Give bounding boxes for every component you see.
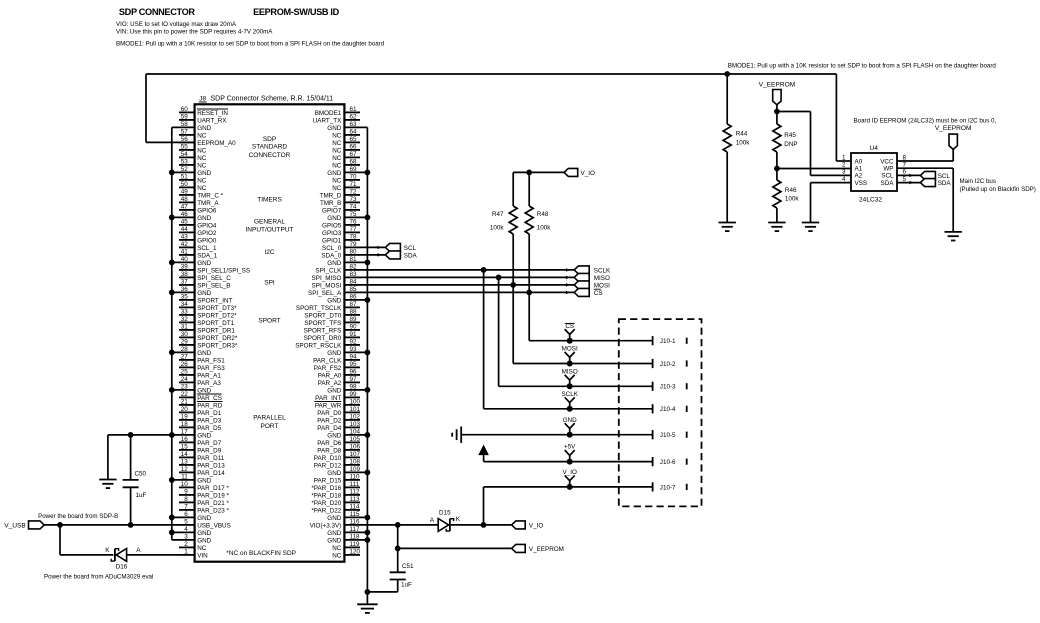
pin 34 SPORT_DT3* (J8 left) (179, 301, 237, 312)
pin 19 PAR_D3 (J8 left) (179, 413, 222, 424)
svg-text:GND: GND (197, 350, 211, 357)
svg-text:24LC32: 24LC32 (859, 196, 882, 203)
svg-text:88: 88 (350, 308, 358, 315)
svg-text:PAR_FS1: PAR_FS1 (197, 358, 225, 365)
svg-text:SPORT_DT1: SPORT_DT1 (197, 320, 234, 327)
svg-text:GND: GND (327, 298, 341, 305)
pin 23 GND (J8 left) (172, 383, 212, 394)
ground at right GND bus (357, 604, 377, 613)
svg-text:86: 86 (350, 293, 358, 300)
wire SDA_0 to flag (360, 253, 385, 257)
pin 119 NC (J8 right) (332, 541, 360, 552)
wire U4 VCC to V_EEPROM (897, 149, 953, 161)
svg-text:PAR_D21 *: PAR_D21 * (197, 500, 229, 507)
svg-text:52: 52 (181, 166, 189, 173)
svg-text:GND: GND (327, 170, 341, 177)
pin 75 GND (J8 right) (327, 211, 367, 222)
svg-text:PAR_D6: PAR_D6 (317, 440, 342, 447)
svg-text:*NC on BLACKFIN SDP: *NC on BLACKFIN SDP (226, 550, 296, 557)
junction left GND bus pin 40 (169, 260, 175, 266)
svg-text:117: 117 (350, 526, 361, 533)
svg-text:PAR_FS2: PAR_FS2 (314, 365, 342, 372)
svg-text:40: 40 (181, 256, 189, 263)
junction left GND bus pin 23 (169, 387, 175, 393)
svg-text:PAR_INT: PAR_INT (315, 395, 341, 402)
svg-text:100k: 100k (537, 224, 552, 231)
svg-text:11: 11 (181, 473, 188, 480)
pin 37 SPI_SEL_B (J8 left) (179, 278, 230, 289)
pin 45 GPIO4 (J8 left) (179, 218, 217, 229)
svg-text:J10-7: J10-7 (660, 484, 676, 491)
svg-text:EEPROM_A0: EEPROM_A0 (197, 140, 236, 147)
pin 85 SPI_SEL_A (J8 right) (308, 286, 360, 297)
pin 101 PAR_D0 (J8 right) (317, 406, 360, 417)
svg-text:TMR_A: TMR_A (197, 200, 219, 207)
svg-text:65: 65 (350, 136, 358, 143)
svg-text:4: 4 (184, 526, 188, 533)
wire top rail down to U4 A0 (836, 74, 851, 161)
svg-text:PAR_A1: PAR_A1 (197, 373, 221, 380)
connector J8 body (195, 104, 345, 561)
pin 107 PAR_D10 (J8 right) (314, 451, 361, 462)
svg-text:A0: A0 (855, 158, 863, 165)
svg-text:NC: NC (197, 155, 207, 162)
capacitor C51 1uF (390, 548, 414, 592)
title SDP CONNECTOR (119, 7, 195, 17)
svg-text:STANDARD: STANDARD (252, 144, 288, 151)
svg-text:99: 99 (350, 391, 358, 398)
svg-text:PAR_D2: PAR_D2 (317, 418, 342, 425)
svg-text:VIO: USE to set IO voltage max: VIO: USE to set IO voltage max draw 20mA (116, 21, 237, 28)
svg-text:105: 105 (350, 436, 361, 443)
svg-text:UART_RX: UART_RX (197, 118, 227, 125)
svg-text:92: 92 (350, 338, 358, 345)
pin 59 UART_RX (J8 left) (179, 113, 227, 124)
svg-text:26: 26 (181, 361, 189, 368)
pin 42 SCL_1 (J8 left) (179, 241, 217, 252)
svg-text:BMODE1: Pull up with a 10K res: BMODE1: Pull up with a 10K resistor to s… (116, 41, 385, 48)
pin 80 SDA_0 (J8 right) (321, 248, 360, 259)
svg-text:48: 48 (181, 196, 189, 203)
pin 111 *PAR_D16 (J8 right) (311, 481, 360, 492)
svg-text:75: 75 (350, 211, 358, 218)
pin 24 PAR_A3 (J8 left) (179, 376, 221, 387)
pin 98 GND (J8 right) (327, 383, 367, 394)
svg-text:106: 106 (350, 443, 361, 450)
note VIN usage (116, 29, 273, 36)
svg-text:NC: NC (332, 148, 342, 155)
svg-text:32: 32 (181, 316, 189, 323)
svg-text:R48: R48 (537, 211, 549, 218)
pin 9 PAR_D19 * (J8 left) (179, 488, 229, 499)
net flag V_USB (4, 521, 44, 530)
svg-text:81: 81 (350, 256, 358, 263)
svg-text:111: 111 (350, 481, 360, 488)
svg-text:34: 34 (181, 301, 189, 308)
svg-text:NC: NC (332, 155, 342, 162)
svg-text:116: 116 (350, 518, 361, 525)
svg-text:GND: GND (327, 350, 341, 357)
svg-text:NC: NC (197, 545, 207, 552)
pin 106 PAR_D8 (J8 right) (317, 443, 360, 454)
svg-text:PAR_D14: PAR_D14 (197, 470, 225, 477)
pin 38 SPI_SEL_C (J8 left) (179, 271, 231, 282)
svg-text:PAR_D10: PAR_D10 (314, 455, 342, 462)
pin 26 PAR_FS3 (J8 left) (179, 361, 225, 372)
svg-text:V_IO: V_IO (581, 170, 595, 177)
svg-text:GPIO1: GPIO1 (322, 238, 342, 245)
resistor R47 100k (490, 172, 517, 285)
svg-text:19: 19 (181, 413, 189, 420)
svg-text:NC: NC (332, 545, 342, 552)
wire D15 to V_IO flag (451, 524, 512, 526)
svg-text:R46: R46 (785, 187, 797, 194)
svg-text:SPI_SEL_C: SPI_SEL_C (197, 275, 231, 282)
svg-text:53: 53 (181, 158, 189, 165)
svg-text:39: 39 (181, 263, 189, 270)
svg-text:V_EEPROM: V_EEPROM (935, 125, 972, 132)
svg-text:SPORT_DT0: SPORT_DT0 (304, 313, 341, 320)
svg-text:SPORT_RFS: SPORT_RFS (304, 328, 342, 335)
svg-text:V_USB: V_USB (4, 523, 26, 530)
pin 2 U4 A1 (842, 162, 846, 169)
svg-text:V_EEPROM: V_EEPROM (759, 82, 796, 89)
svg-text:100k: 100k (736, 139, 751, 146)
svg-text:69: 69 (350, 166, 358, 173)
svg-text:PAR_D23 *: PAR_D23 * (197, 508, 229, 515)
svg-text:112: 112 (350, 488, 361, 495)
svg-text:SPI_SEL_A: SPI_SEL_A (308, 290, 342, 297)
svg-text:SPORT_DR3*: SPORT_DR3* (197, 343, 238, 350)
pin J10-4 (653, 404, 687, 413)
pin 78 GPIO1 (J8 right) (322, 233, 360, 244)
svg-text:PAR_FS3: PAR_FS3 (197, 365, 225, 372)
junction C50 top (128, 432, 134, 438)
svg-text:SPORT_INT: SPORT_INT (197, 298, 232, 305)
svg-text:100k: 100k (785, 196, 800, 203)
svg-text:62: 62 (350, 113, 358, 120)
pin 20 PAR_D1 (J8 left) (179, 406, 222, 417)
svg-text:37: 37 (181, 278, 189, 285)
svg-text:SPORT_DR1: SPORT_DR1 (197, 328, 235, 335)
svg-text:SCLK: SCLK (594, 267, 611, 274)
svg-text:3: 3 (184, 533, 188, 540)
svg-text:*PAR_D22: *PAR_D22 (311, 508, 341, 515)
wire V_IO to J10-7 (484, 487, 653, 525)
svg-text:SCL: SCL (404, 245, 417, 252)
resistor R45 DNP (773, 112, 798, 169)
svg-text:47: 47 (181, 203, 189, 210)
svg-text:PAR_D3: PAR_D3 (197, 418, 222, 425)
pin J10-1 (653, 336, 687, 345)
junction SCLK branch (481, 267, 487, 273)
pin 90 SPORT_RFS (J8 right) (304, 323, 360, 334)
pin 112 *PAR_D18 (J8 right) (311, 488, 360, 499)
junction right GND bus pin 69 (365, 170, 371, 176)
pin 118 GND (J8 right) (327, 533, 367, 544)
svg-text:I2C: I2C (264, 249, 274, 256)
svg-text:NC: NC (197, 178, 207, 185)
wire GND bus to ground (366, 592, 368, 604)
svg-text:GND: GND (197, 530, 211, 537)
svg-text:MISO: MISO (594, 275, 610, 282)
pin 7 U4 WP (902, 162, 906, 169)
pin 4 U4 VSS (842, 176, 846, 183)
junction V_EEPROM / C51 node (395, 546, 401, 552)
svg-text:100: 100 (350, 398, 361, 405)
svg-text:GND: GND (327, 470, 341, 477)
svg-text:6: 6 (184, 511, 188, 518)
svg-text:VCC: VCC (880, 158, 894, 165)
svg-text:SPI_MOSI: SPI_MOSI (312, 283, 342, 290)
pin 39 SPI_SEL1/SPI_SS (J8 left) (179, 263, 250, 274)
wire SPI_SEL_A to CS flag (360, 291, 574, 295)
pin 13 PAR_D13 (J8 left) (179, 458, 225, 469)
pin 44 GPIO2 (J8 left) (179, 226, 217, 237)
svg-text:120: 120 (350, 548, 361, 555)
pin 51 NC (J8 left) (179, 173, 207, 184)
power flag V_EEPROM (at U4 VCC) (935, 125, 972, 150)
svg-text:NC: NC (332, 140, 342, 147)
svg-text:GND: GND (327, 125, 341, 132)
junction left GND bus pin 36 (169, 290, 175, 296)
svg-text:R47: R47 (492, 211, 504, 218)
pin 3 GND (J8 left) (172, 533, 212, 544)
ground at R44 (719, 223, 736, 232)
svg-text:SCL_0: SCL_0 (322, 245, 342, 252)
pin 109 GND (J8 right) (327, 466, 367, 477)
pin 53 NC (J8 left) (179, 158, 207, 169)
pin 5 U4 SDA (902, 176, 906, 183)
pin 61 BMODE1 (J8 right) (315, 106, 360, 117)
net flag MISO (574, 273, 610, 281)
svg-text:79: 79 (350, 241, 358, 248)
wire U4 SCL to flag (897, 174, 920, 178)
junction right GND bus pin 109 (365, 470, 371, 476)
wire divider node to U4 A1 (777, 168, 851, 170)
wire SPI_CLK to SCLK flag (360, 268, 574, 272)
svg-text:D16: D16 (116, 563, 128, 570)
svg-text:NC: NC (197, 148, 207, 155)
svg-text:70: 70 (350, 173, 358, 180)
pin 89 SPORT_TFS (J8 right) (304, 316, 360, 327)
diode D16 (schottky) (105, 547, 141, 570)
svg-text:58: 58 (181, 121, 189, 128)
svg-text:20: 20 (181, 406, 189, 413)
svg-text:J10-5: J10-5 (660, 432, 676, 439)
svg-text:J10-1: J10-1 (660, 338, 676, 345)
pin 28 GND (J8 left) (172, 346, 212, 357)
pin 3 U4 A2 (842, 169, 846, 176)
junction right GND bus pin 98 (365, 387, 371, 393)
svg-text:5: 5 (184, 518, 188, 525)
svg-text:SPI_SEL_B: SPI_SEL_B (197, 283, 230, 290)
svg-text:INPUT/OUTPUT: INPUT/OUTPUT (245, 227, 293, 234)
svg-text:8: 8 (184, 496, 188, 503)
svg-text:J10-6: J10-6 (660, 459, 676, 466)
svg-text:PAR_D13: PAR_D13 (197, 463, 225, 470)
svg-text:71: 71 (350, 181, 358, 188)
wire D16 to VIN (127, 554, 179, 556)
wire CS down to J10-1 (529, 292, 652, 340)
svg-text:GPIO4: GPIO4 (197, 223, 217, 230)
svg-text:GND: GND (327, 515, 341, 522)
svg-text:30: 30 (181, 331, 189, 338)
svg-text:GND: GND (197, 260, 211, 267)
pin 32 SPORT_DT1 (J8 left) (179, 316, 235, 327)
svg-text:V_EEPROM: V_EEPROM (529, 546, 564, 553)
svg-text:SDA: SDA (881, 180, 895, 187)
diode D15 (schottky) (430, 509, 461, 531)
net flag SCLK (574, 266, 611, 274)
wire SCLK down to J10-4 (484, 270, 653, 409)
pin 65 NC (J8 right) (332, 136, 360, 147)
ground at U4 WP (945, 232, 962, 241)
pin 40 GND (J8 left) (172, 256, 212, 267)
ground at U4 VSS (802, 223, 819, 232)
pin 104 GND (J8 right) (327, 428, 367, 439)
svg-text:GND: GND (327, 388, 341, 395)
svg-text:63: 63 (350, 121, 358, 128)
note Power the board from ADuCM3029 eval (44, 573, 153, 580)
wire VIO(+3.3V) from J8 to D15 (360, 524, 438, 526)
svg-text:*PAR_D18: *PAR_D18 (311, 493, 341, 500)
svg-text:SPORT_TSCLK: SPORT_TSCLK (296, 305, 342, 312)
svg-text:DNP: DNP (784, 141, 797, 148)
svg-text:J8: J8 (199, 96, 206, 103)
pin 70 NC (J8 right) (332, 173, 360, 184)
svg-text:54: 54 (181, 151, 189, 158)
pin 46 GND (J8 left) (172, 211, 212, 222)
svg-text:TIMERS: TIMERS (257, 197, 282, 204)
svg-text:U4: U4 (870, 145, 879, 152)
net flag SDA (J8) (385, 251, 417, 259)
note BMODE1 usage (116, 41, 385, 48)
pin 113 *PAR_D20 (J8 right) (311, 496, 360, 507)
svg-text:24: 24 (181, 376, 189, 383)
pin 21 PAR_RD (J8 left) (179, 398, 223, 409)
wire SPI_MISO to MISO flag (360, 276, 574, 280)
pin 56 EEPROM_A0 (J8 left) (179, 136, 236, 147)
svg-text:PAR_A0: PAR_A0 (318, 373, 342, 380)
svg-text:18: 18 (181, 421, 189, 428)
svg-text:SDA_1: SDA_1 (197, 253, 217, 260)
pin 6 GND (J8 left) (172, 511, 212, 522)
svg-text:PAR_WR: PAR_WR (315, 403, 342, 410)
junction V_IO rail at R48 (526, 170, 532, 176)
svg-text:SDP: SDP (263, 136, 276, 143)
svg-text:RESET_IN: RESET_IN (197, 110, 228, 117)
svg-text:C50: C50 (135, 470, 147, 477)
pin 15 PAR_D9 (J8 left) (179, 443, 222, 454)
pin 95 PAR_FS2 (J8 right) (314, 361, 360, 372)
junction R45/R46 divider node (774, 166, 780, 172)
svg-text:NC: NC (332, 553, 342, 560)
svg-text:V_IO: V_IO (563, 469, 577, 476)
junction V_IO at J10-7 branch (481, 522, 487, 528)
svg-text:SPORT: SPORT (258, 318, 280, 325)
svg-text:29: 29 (181, 338, 189, 345)
pin 108 PAR_D12 (J8 right) (314, 458, 361, 469)
svg-text:SPORT_DT3*: SPORT_DT3* (197, 305, 237, 312)
junction V_USB at C50 (128, 522, 134, 528)
svg-text:CONNECTOR: CONNECTOR (249, 152, 291, 159)
power flag V_EEPROM (divider) (759, 82, 796, 112)
svg-text:95: 95 (350, 361, 358, 368)
svg-text:PAR_D11: PAR_D11 (197, 455, 225, 462)
note *NC on BLACKFIN SDP (226, 550, 296, 557)
svg-text:74: 74 (350, 203, 358, 210)
svg-text:PAR_D9: PAR_D9 (197, 448, 222, 455)
svg-text:GND: GND (197, 215, 211, 222)
svg-text:50: 50 (181, 181, 189, 188)
svg-text:43: 43 (181, 233, 189, 240)
pin J10-7 (653, 482, 687, 491)
svg-text:NC: NC (332, 163, 342, 170)
svg-text:33: 33 (181, 308, 189, 315)
svg-text:84: 84 (350, 278, 358, 285)
wire U4 VSS to ground (811, 183, 852, 223)
refdes J8 (199, 96, 207, 103)
wire MISO down to J10-3 (499, 277, 653, 386)
pin 64 NC (J8 right) (332, 128, 360, 139)
pin 110 PAR_D15 (J8 right) (314, 473, 360, 484)
title SDP Connector Scheme, R.R. 15/04/11 (211, 96, 334, 103)
svg-text:SCLK: SCLK (561, 391, 578, 398)
svg-text:GND: GND (197, 433, 211, 440)
svg-text:21: 21 (181, 398, 189, 405)
svg-text:SPI_MISO: SPI_MISO (312, 275, 342, 282)
svg-text:BMODE1: Pull up with a 10K res: BMODE1: Pull up with a 10K resistor to s… (728, 62, 997, 69)
svg-text:PAR_D8: PAR_D8 (317, 448, 342, 455)
pin 54 NC (J8 left) (179, 151, 207, 162)
net flag SCL (J8) (385, 243, 416, 251)
svg-text:GENERAL: GENERAL (254, 218, 285, 225)
wire C51 to GND bus (367, 591, 397, 593)
svg-text:59: 59 (181, 113, 189, 120)
svg-text:C51: C51 (402, 563, 414, 570)
junction GND bus bottom (365, 589, 371, 595)
junction left GND bus pin 11 (169, 477, 175, 483)
junction right GND bus pin 118 (365, 537, 371, 543)
svg-text:UART_TX: UART_TX (313, 118, 342, 125)
svg-text:PAR_D1: PAR_D1 (197, 410, 222, 417)
section label SPI (264, 279, 275, 286)
junction VIO / V_EEPROM branch (395, 522, 401, 528)
pin 99 PAR_INT (J8 right) (315, 391, 360, 402)
svg-text:42: 42 (181, 241, 189, 248)
pin 91 SPORT_DR0 (J8 right) (304, 331, 360, 342)
svg-text:55: 55 (181, 143, 189, 150)
pin 50 NC (J8 left) (179, 181, 207, 192)
svg-text:J10-4: J10-4 (660, 406, 676, 413)
svg-text:51: 51 (181, 173, 189, 180)
svg-text:PAR_D7: PAR_D7 (197, 440, 222, 447)
pin 114 *PAR_D22 (J8 right) (311, 503, 360, 514)
pin 100 PAR_WR (J8 right) (315, 398, 361, 409)
svg-text:100k: 100k (490, 224, 505, 231)
svg-text:PARALLEL: PARALLEL (253, 415, 286, 422)
resistor R46 100k (773, 169, 800, 223)
svg-text:SDA_0: SDA_0 (321, 253, 341, 260)
svg-text:97: 97 (350, 376, 358, 383)
wire U4 WP to ground (897, 168, 953, 232)
svg-text:15: 15 (181, 443, 189, 450)
svg-text:D15: D15 (439, 509, 451, 516)
junction MISO branch (496, 275, 502, 281)
pin 30 SPORT_DR2* (J8 left) (179, 331, 238, 342)
wire left GND bus (171, 127, 173, 540)
